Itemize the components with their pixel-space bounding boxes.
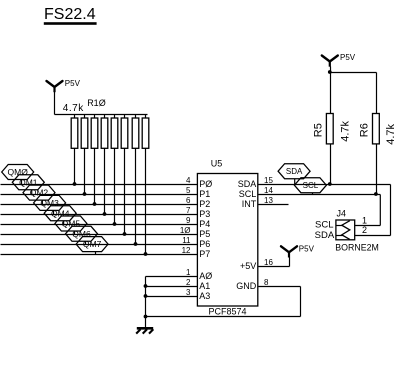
junction R10.3/P2 row	[93, 202, 97, 206]
svg-text:2: 2	[186, 278, 191, 287]
resistor R10 element 4 (pull-up P3)	[101, 115, 108, 215]
node SCL flag	[294, 178, 326, 195]
wire GND vertical	[300, 287, 302, 317]
svg-text:14: 14	[264, 186, 273, 195]
junction P5V rail	[328, 70, 332, 74]
wire P5V stem to bus	[54, 92, 56, 115]
resistor R10 element 2 (pull-up P1)	[81, 115, 88, 195]
svg-text:P6: P6	[199, 239, 210, 249]
wire rail to R5	[330, 73, 332, 114]
junction A3 tap	[144, 294, 148, 298]
power P5V (U5 supply)	[281, 246, 297, 257]
wire address common vertical	[145, 277, 147, 328]
svg-text:5: 5	[186, 186, 191, 195]
power P5V (I2C pull-ups)	[322, 56, 338, 67]
svg-text:SDA: SDA	[238, 179, 257, 189]
wire net QM3 row to U5 P3	[1, 214, 198, 216]
svg-text:BORNE2M: BORNE2M	[335, 242, 379, 252]
svg-text:4: 4	[186, 176, 191, 185]
wire INT stub (U5.13)	[259, 204, 289, 206]
wire net QM5 row to U5 P5	[1, 234, 198, 236]
svg-text:FS22.4: FS22.4	[44, 6, 96, 23]
svg-text:PCF8574: PCF8574	[208, 307, 246, 317]
svg-text:P5V: P5V	[299, 244, 315, 253]
junction R10.7/P6 row	[134, 242, 138, 246]
svg-text:INT: INT	[242, 199, 257, 209]
svg-text:P3: P3	[199, 209, 210, 219]
junction R6/SCL	[374, 192, 378, 196]
wire net SDA (U5.15 to J4.2 corner)	[259, 184, 391, 186]
svg-text:P5: P5	[199, 229, 210, 239]
svg-text:R1Ø: R1Ø	[87, 98, 106, 108]
node QM5 flag	[55, 216, 87, 235]
svg-text:4.7k: 4.7k	[385, 124, 397, 145]
ground	[136, 328, 153, 333]
wire net QM4 row to U5 P4	[1, 224, 198, 226]
junction R10.5/P4 row	[113, 222, 117, 226]
wire net SCL to J4 pin 1	[355, 225, 381, 227]
svg-text:4.7k: 4.7k	[63, 103, 84, 114]
svg-text:SCL: SCL	[315, 219, 333, 230]
svg-text:QM7: QM7	[83, 239, 102, 249]
svg-text:12: 12	[182, 246, 191, 255]
svg-text:AØ: AØ	[199, 271, 212, 281]
svg-text:P4: P4	[199, 219, 210, 229]
junction R10.2/P1 row	[83, 192, 87, 196]
wire net QM1 row to U5 P1	[1, 194, 198, 196]
resistor R10 element 1 (pull-up P0)	[71, 115, 78, 185]
svg-text:16: 16	[264, 258, 273, 267]
resistor R10 element 3 (pull-up P2)	[91, 115, 98, 205]
node QM1 flag	[12, 175, 44, 195]
wire U5.8 GND right	[259, 286, 301, 288]
resistor R10 element 7 (pull-up P6)	[132, 115, 139, 245]
node QM3 flag	[34, 195, 66, 214]
node QM6 flag	[66, 226, 98, 244]
wire R5/R6 top rail	[331, 72, 377, 74]
svg-text:15: 15	[264, 176, 273, 185]
wire net SCL (U5.14 to J4.1 corner)	[259, 194, 381, 196]
wire A1 row	[146, 286, 198, 288]
wire net SDA to J4 pin 2	[355, 235, 391, 237]
svg-text:P2: P2	[199, 199, 210, 209]
resistor R6	[373, 114, 380, 144]
resistor R5	[326, 114, 333, 144]
svg-text:SDA: SDA	[315, 230, 335, 241]
node QM2 flag	[23, 185, 55, 204]
node QM4 flag	[44, 206, 76, 225]
node QM0 flag	[2, 165, 34, 185]
svg-text:A3: A3	[199, 291, 210, 301]
junction R5/SDA	[328, 182, 332, 186]
junction R10.1/P0 row	[73, 182, 77, 186]
connector J4 contacts	[337, 221, 350, 240]
svg-text:GND: GND	[236, 281, 257, 291]
wire R5 to SDA	[330, 145, 332, 185]
wire R6 to SCL	[376, 145, 378, 195]
resistor R10 element 5 (pull-up P4)	[111, 115, 118, 225]
wire net SDA vertical drop	[390, 185, 392, 236]
junction ground return tap	[144, 315, 148, 319]
svg-text:P7: P7	[199, 249, 210, 259]
svg-text:U5: U5	[211, 159, 223, 169]
svg-text:13: 13	[264, 196, 273, 205]
svg-text:SDA: SDA	[286, 167, 303, 176]
wire U5.16 to P5V	[259, 257, 290, 266]
svg-text:J4: J4	[337, 208, 347, 218]
svg-text:PØ: PØ	[199, 179, 212, 189]
wire GND return to ground	[146, 316, 301, 318]
wire net QM2 row to U5 P2	[1, 204, 198, 206]
node SDA flag	[278, 164, 310, 185]
wire rail to R6	[376, 73, 378, 114]
wire R10 top bus	[55, 114, 148, 116]
power P5V (pull-up network)	[47, 81, 63, 92]
svg-text:4.7k: 4.7k	[339, 121, 351, 142]
svg-text:1: 1	[362, 215, 367, 225]
svg-text:6: 6	[186, 196, 191, 205]
svg-text:3: 3	[186, 288, 191, 297]
svg-text:11: 11	[182, 236, 191, 245]
svg-text:9: 9	[186, 216, 191, 225]
svg-text:2: 2	[362, 225, 367, 235]
wire P5V stem	[330, 67, 332, 73]
wire net QM6 row to U5 P6	[1, 244, 198, 246]
IC U5 PCF8574 body	[197, 174, 257, 307]
junction A1 tap	[144, 284, 148, 288]
svg-text:SCL: SCL	[303, 181, 319, 190]
wire A3 row	[146, 296, 198, 298]
title FS22.4	[44, 6, 97, 25]
svg-text:P5V: P5V	[340, 53, 356, 62]
svg-text:SCL: SCL	[239, 189, 257, 199]
wire A0 row	[146, 276, 198, 278]
resistor R10 element 8 (pull-up P7)	[142, 115, 149, 255]
svg-text:R5: R5	[313, 123, 325, 137]
wire net QM0 row to U5 P0	[1, 184, 198, 186]
svg-text:1Ø: 1Ø	[180, 226, 191, 235]
svg-text:7: 7	[186, 206, 191, 215]
svg-text:A1: A1	[199, 281, 210, 291]
junction R10.6/P5 row	[123, 232, 127, 236]
svg-text:8: 8	[264, 278, 269, 287]
junction R10.4/P3 row	[103, 212, 107, 216]
resistor R10 element 6 (pull-up P5)	[121, 115, 128, 235]
wire net QM7 row to U5 P7	[1, 254, 198, 256]
svg-text:P1: P1	[199, 189, 210, 199]
svg-text:+5V: +5V	[240, 261, 256, 271]
junction R10.8/P7 row	[144, 252, 148, 256]
node QM7 flag	[76, 237, 108, 255]
wire net SCL vertical drop	[379, 195, 381, 226]
svg-text:1: 1	[186, 268, 191, 277]
connector J4 body	[336, 220, 355, 240]
svg-text:R6: R6	[359, 123, 371, 137]
svg-text:P5V: P5V	[65, 79, 81, 88]
